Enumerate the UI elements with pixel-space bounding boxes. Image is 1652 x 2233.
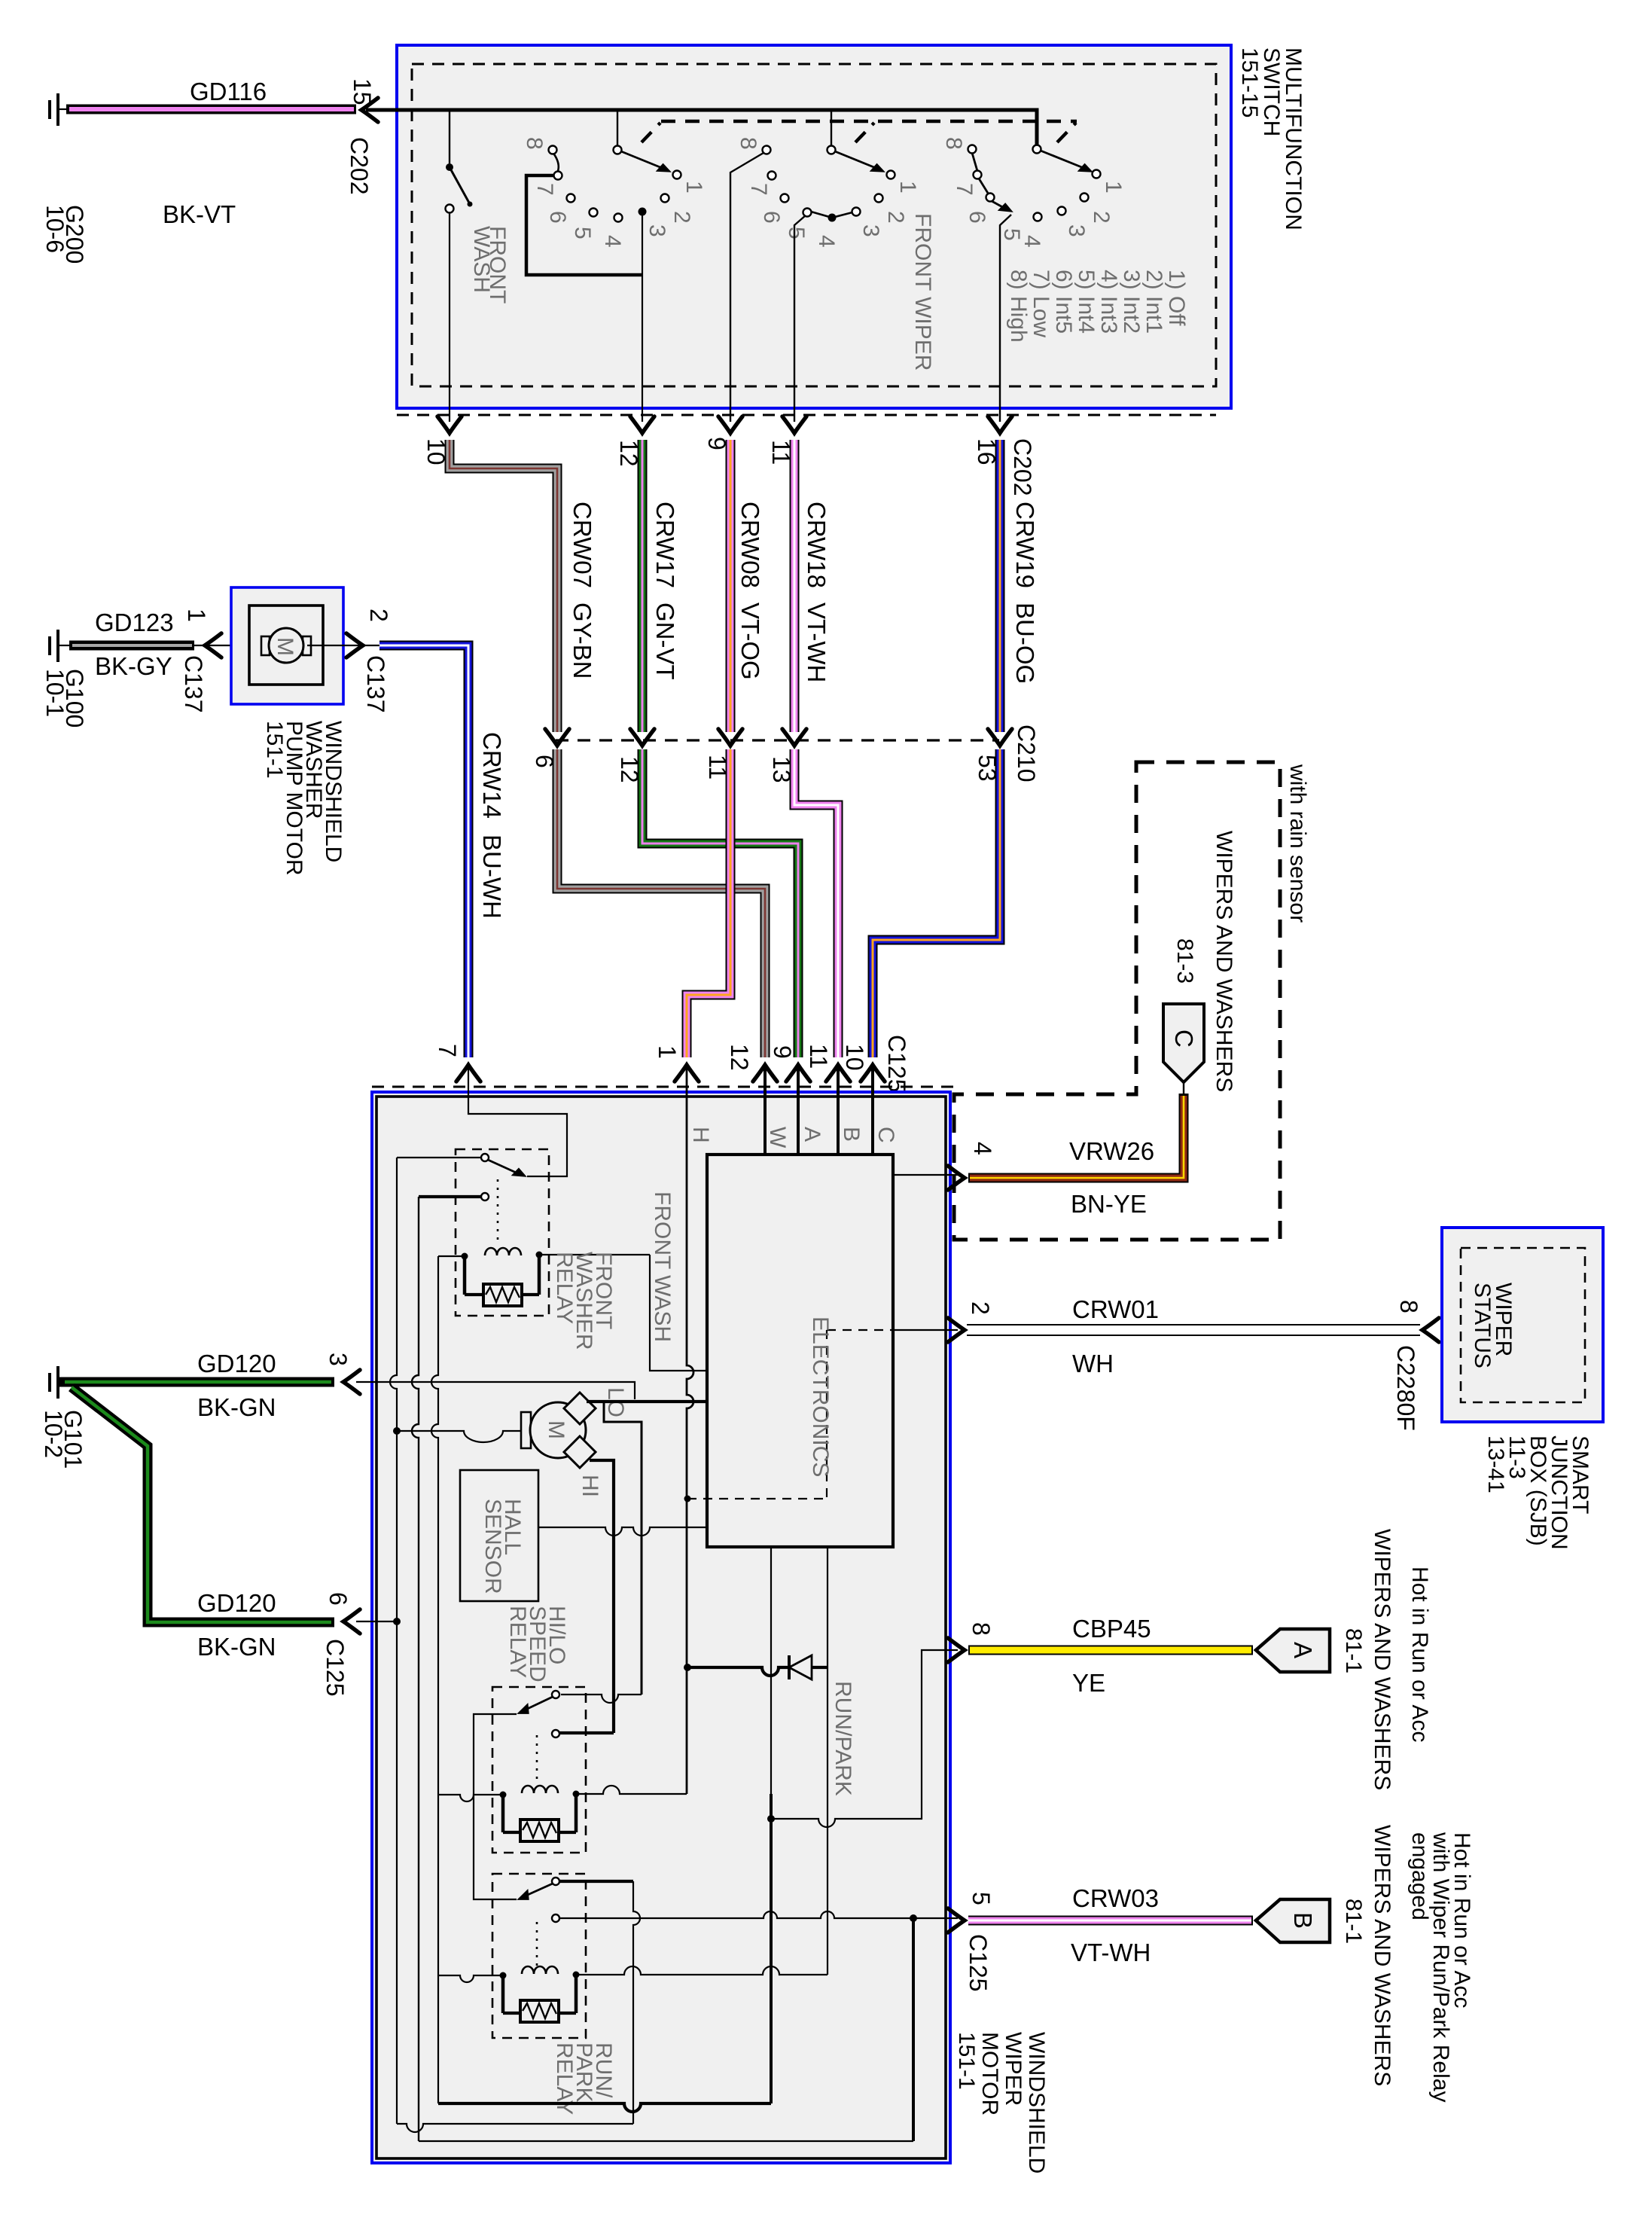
svg-text:C210: C210: [1013, 725, 1040, 782]
svg-text:STATUS: STATUS: [1470, 1283, 1495, 1368]
connector C202 dashed line: [397, 414, 1216, 416]
label FRONT WASHER RELAY: [552, 1252, 616, 1350]
svg-text:9: 9: [769, 1045, 796, 1059]
relay K1 resistor: [465, 1284, 539, 1306]
svg-text:M: M: [273, 637, 297, 656]
svg-text:GD116: GD116: [190, 78, 267, 105]
svg-text:13: 13: [768, 756, 795, 783]
svg-text:3) Int2: 3) Int2: [1119, 270, 1144, 334]
labels C202 pins: [422, 437, 1036, 496]
svg-text:7) Low: 7) Low: [1029, 270, 1053, 337]
svg-text:C125: C125: [883, 1035, 910, 1093]
svg-text:BK-GN: BK-GN: [197, 1633, 276, 1661]
wire pin6 interior: [356, 1621, 397, 1622]
wire CRW19 BU-OG upper: [995, 440, 1005, 732]
svg-text:CRW03: CRW03: [1072, 1884, 1159, 1912]
wire pin11 B: [837, 1069, 840, 1155]
electronics dashed box: [687, 1330, 893, 1499]
wire bottom line H2: [397, 2124, 633, 2132]
svg-text:W: W: [765, 1127, 790, 1149]
svg-text:2: 2: [669, 211, 694, 224]
label HI/LO SPEED RELAY: [505, 1606, 569, 1682]
labels C210 pins: [531, 725, 1040, 783]
wire LO branch to hi/lo relay pivot: [604, 1402, 642, 1695]
front washer relay dashed box: [456, 1149, 549, 1316]
svg-text:10-1: 10-1: [41, 669, 69, 717]
svg-text:CRW17: CRW17: [651, 502, 679, 588]
svg-text:C: C: [873, 1127, 898, 1143]
label Hot in Run or Acc engaged: [1407, 1832, 1474, 2102]
svg-text:6: 6: [545, 211, 570, 224]
wire HI bold: [590, 1460, 614, 1733]
wire wafer1 contact7 bracket: [526, 175, 642, 275]
svg-text:2: 2: [967, 1301, 994, 1315]
connector C125 pin6 arrow: [343, 1609, 360, 1634]
svg-text:10-2: 10-2: [40, 1410, 67, 1458]
svg-text:C2280F: C2280F: [1392, 1345, 1419, 1431]
switch wafer1 front wiper: [522, 137, 706, 248]
svg-text:RELAY: RELAY: [552, 1252, 577, 1324]
wire pin9 A: [797, 1069, 800, 1155]
relay K2 switch: [514, 1691, 559, 1782]
svg-text:MOTOR: MOTOR: [977, 2032, 1002, 2116]
wire pin5 branch down: [912, 1918, 915, 2141]
connector C210 pin arrows: [545, 729, 1012, 746]
node diode H junction: [684, 1664, 691, 1671]
wire CRW08 VT-OG upper: [726, 440, 736, 732]
svg-text:7: 7: [746, 183, 771, 196]
connector C202 pin arrows: [437, 416, 1012, 433]
run/park relay dashed box: [492, 1874, 586, 2038]
svg-text:4: 4: [969, 1142, 996, 1155]
svg-text:10-6: 10-6: [41, 205, 69, 253]
wire pin10 C: [871, 1069, 874, 1155]
wire wafer2 contact5 to pin11: [794, 215, 806, 422]
label HALL SENSOR: [480, 1499, 525, 1594]
connector C125 pin4 arrow: [948, 1166, 965, 1190]
wire CRW08 VT-OG lower: [687, 749, 730, 1057]
svg-text:3: 3: [858, 224, 883, 237]
svg-text:2) Int1: 2) Int1: [1141, 270, 1166, 334]
wire pin4 C line: [893, 1174, 958, 1176]
svg-text:5: 5: [968, 1892, 995, 1905]
svg-text:5: 5: [784, 227, 809, 239]
wire VRW26 BN-YE: [968, 1082, 1184, 1178]
svg-text:VT-WH: VT-WH: [1071, 1939, 1151, 1966]
wire GD120 BK-GN pin6 branch: [72, 1387, 334, 1622]
wire wafer3 contact5 to pin16: [1000, 215, 1011, 422]
wire module bottom vertical x1024: [770, 1547, 772, 1794]
svg-text:1) Off: 1) Off: [1164, 270, 1189, 326]
svg-text:GY-BN: GY-BN: [568, 602, 596, 679]
svg-text:CRW18: CRW18: [803, 502, 831, 588]
svg-text:GD120: GD120: [197, 1589, 276, 1617]
svg-text:C125: C125: [322, 1639, 349, 1697]
wire CRW19 BU-OG lower: [873, 749, 1000, 1057]
wire relay contact bold: [419, 1195, 481, 1198]
svg-text:CRW14: CRW14: [478, 732, 506, 819]
wire motor feed: [397, 1431, 521, 1442]
svg-text:2: 2: [1089, 211, 1114, 224]
dashed linkage bus: [642, 121, 1077, 142]
svg-text:81-3: 81-3: [1172, 938, 1197, 984]
wire C137 pin2 lead: [307, 645, 379, 646]
svg-text:4: 4: [1020, 235, 1044, 248]
wire CRW01 WH double line: [967, 1325, 1420, 1335]
svg-text:1: 1: [895, 181, 920, 194]
connector C202 pin15 arrow: [361, 98, 378, 122]
diode D1: [687, 1655, 828, 1679]
labels C125 pins top: [434, 1035, 910, 1093]
svg-text:GD120: GD120: [197, 1350, 276, 1377]
wire bottom line H3: [419, 2140, 913, 2142]
svg-text:BU-OG: BU-OG: [1011, 602, 1039, 684]
label WINDSHIELD WASHER PUMP MOTOR 151-1: [262, 721, 346, 876]
wire stub wafer2 pivot: [831, 110, 832, 146]
svg-text:C202: C202: [1009, 438, 1036, 496]
connector C125 pin8 arrow: [948, 1638, 965, 1662]
svg-text:B: B: [839, 1127, 864, 1142]
svg-text:CBP45: CBP45: [1072, 1615, 1151, 1643]
label MULTIFUNCTION SWITCH 151-15: [1237, 47, 1306, 230]
node power branch: [767, 1815, 775, 1823]
relay K3 resistor: [503, 2000, 576, 2022]
wire pin5 line: [559, 1911, 958, 1918]
wire pin2 lead: [893, 1329, 958, 1331]
wire K3 pivot bold: [559, 1880, 633, 1883]
relay K1 coil: [438, 1248, 650, 1295]
svg-text:1: 1: [183, 609, 210, 622]
svg-text:15: 15: [349, 78, 376, 105]
switch wafer3 front wiper: [941, 137, 1126, 248]
svg-text:CRW07: CRW07: [568, 502, 596, 588]
svg-text:YE: YE: [1072, 1669, 1105, 1697]
windshield washer pump motor box: [231, 587, 343, 704]
wire C137 pin1 lead: [194, 645, 265, 646]
relay K1 switch: [481, 1154, 529, 1244]
wire bottom line H1 bold: [438, 2103, 771, 2112]
wire front wash to pin10: [449, 212, 450, 422]
svg-text:RUN/PARK: RUN/PARK: [831, 1681, 855, 1796]
connector C125 pin3 arrow: [343, 1370, 360, 1394]
connector C137 pin2 arrow: [346, 633, 363, 657]
motor M wiper: [521, 1393, 596, 1468]
svg-text:8: 8: [522, 137, 547, 150]
switch wafer2 front wiper: [736, 137, 920, 248]
svg-text:H: H: [688, 1127, 713, 1143]
wire x1099 lower vertical: [827, 1667, 828, 1975]
node K2 coil left: [500, 1792, 507, 1798]
connector C137 pin1 arrow: [205, 633, 221, 657]
svg-text:12: 12: [726, 1044, 753, 1071]
svg-text:with rain sensor: with rain sensor: [1285, 764, 1310, 923]
svg-text:VT-WH: VT-WH: [803, 602, 831, 682]
connector pentagon A: [1256, 1629, 1330, 1672]
svg-text:C137: C137: [362, 655, 389, 713]
wire pin1 H line: [687, 1069, 693, 1794]
svg-text:A: A: [1289, 1642, 1317, 1658]
svg-text:C202: C202: [346, 137, 373, 195]
svg-text:7: 7: [434, 1044, 461, 1057]
svg-text:151-15: 151-15: [1237, 47, 1262, 117]
svg-text:C137: C137: [180, 655, 207, 713]
wire stub wafer1 pivot: [617, 110, 618, 146]
svg-text:2: 2: [883, 211, 908, 224]
hi/lo speed relay dashed box: [492, 1687, 586, 1853]
svg-text:engaged: engaged: [1407, 1832, 1432, 1920]
svg-text:6: 6: [325, 1592, 352, 1606]
svg-text:3: 3: [645, 224, 669, 237]
wire CRW17 GN-VT lower: [642, 749, 798, 1057]
svg-text:5: 5: [570, 227, 595, 239]
wire rail1 vertical: [390, 1158, 397, 2124]
svg-text:WIPERS AND WASHERS: WIPERS AND WASHERS: [1212, 831, 1236, 1092]
wire pin7 to washer relay arm: [468, 1069, 567, 1176]
connector pentagon B: [1256, 1899, 1330, 1942]
svg-text:7: 7: [532, 183, 557, 196]
wire K2 coil feed: [576, 1786, 687, 1794]
svg-text:4) Int3: 4) Int3: [1096, 270, 1121, 334]
wire wafer2 contact8 to pin9: [730, 153, 764, 422]
svg-text:WINDSHIELD: WINDSHIELD: [1024, 2032, 1049, 2174]
svg-text:81-1: 81-1: [1341, 1899, 1366, 1944]
svg-text:3: 3: [1064, 224, 1089, 237]
svg-text:151-1: 151-1: [954, 2032, 979, 2090]
svg-text:RELAY: RELAY: [505, 1606, 530, 1678]
svg-text:8: 8: [968, 1622, 995, 1636]
windshield wiper motor box: [372, 1092, 950, 2163]
svg-text:VT-OG: VT-OG: [736, 602, 764, 680]
node pin5 junction: [910, 1914, 917, 1922]
svg-text:8: 8: [1395, 1300, 1422, 1313]
labels module pins H W A B C: [688, 1127, 898, 1149]
wire CRW17 GN-VT upper: [638, 440, 648, 732]
wire wafer1 contact3 to pin12: [642, 212, 643, 422]
svg-text:M: M: [544, 1420, 568, 1439]
multifunction switch box U1: [397, 45, 1231, 408]
wire CRW07 GY-BN lower: [557, 749, 765, 1057]
node K3 coil right: [573, 1972, 580, 1978]
svg-text:6) Int5: 6) Int5: [1051, 270, 1076, 334]
svg-text:ELECTRONICS: ELECTRONICS: [808, 1316, 833, 1477]
svg-text:WH: WH: [1072, 1350, 1114, 1377]
svg-text:C125: C125: [965, 1934, 992, 1992]
svg-text:WIPER: WIPER: [1001, 2032, 1026, 2106]
wire rail2 vertical: [412, 1197, 419, 2141]
node electronics dashed corner: [684, 1496, 691, 1502]
wire rail1 to relay pivot: [397, 1157, 481, 1158]
svg-text:13-41: 13-41: [1483, 1435, 1508, 1493]
wire pin3 interior: [356, 1382, 635, 1399]
svg-text:8) High: 8) High: [1006, 270, 1031, 343]
hall sensor box: [460, 1470, 538, 1601]
svg-text:BK-VT: BK-VT: [163, 200, 236, 228]
wire pin12 W: [764, 1069, 767, 1155]
ground G100: [41, 630, 88, 728]
connector pentagon C: [1163, 1004, 1204, 1082]
wire CRW14 BU-WH: [379, 645, 468, 1057]
svg-text:CRW01: CRW01: [1072, 1295, 1159, 1323]
svg-text:6: 6: [531, 755, 558, 768]
svg-text:4: 4: [814, 235, 839, 248]
svg-text:2: 2: [365, 609, 392, 622]
connector C125 pin2 arrow: [948, 1318, 965, 1342]
wire K3 pivot vertical: [633, 1881, 640, 2124]
node rail1 motor feed: [393, 1427, 401, 1435]
ground G101: [40, 1366, 87, 1469]
svg-text:11: 11: [704, 755, 731, 779]
relay K2 resistor: [503, 1820, 576, 1841]
node rail1 pin6: [393, 1618, 401, 1625]
svg-text:B: B: [1289, 1912, 1317, 1929]
svg-text:4: 4: [600, 235, 625, 248]
svg-text:1: 1: [681, 181, 706, 194]
svg-text:HI: HI: [578, 1475, 602, 1497]
wire pin15 bus: [366, 110, 1037, 145]
relay K3 coil: [438, 1966, 828, 2013]
svg-text:5) Int4: 5) Int4: [1074, 270, 1099, 334]
node K2 coil right: [573, 1791, 580, 1798]
wire hall to module: [538, 1527, 707, 1536]
wire K2 pivot link: [561, 1695, 642, 1703]
wire CRW18 VT-WH upper: [790, 440, 800, 732]
svg-text:BK-GN: BK-GN: [197, 1393, 276, 1421]
node coil left: [462, 1253, 468, 1260]
connector C210 dashed line: [556, 739, 999, 741]
svg-text:SENSOR: SENSOR: [480, 1499, 505, 1594]
svg-text:FRONT WIPER: FRONT WIPER: [910, 213, 935, 371]
wiper status box: [1442, 1228, 1603, 1422]
svg-text:3: 3: [325, 1353, 352, 1366]
svg-text:BK-GY: BK-GY: [95, 652, 172, 680]
wire CRW18 VT-WH lower: [794, 749, 838, 1057]
svg-text:6: 6: [759, 211, 784, 224]
svg-text:151-1: 151-1: [262, 721, 287, 779]
svg-text:C: C: [1170, 1030, 1198, 1048]
svg-text:FRONT WASH: FRONT WASH: [650, 1191, 675, 1342]
svg-text:8: 8: [941, 137, 966, 150]
svg-text:CRW08: CRW08: [736, 502, 764, 588]
wire module bottom diode line: [827, 1547, 828, 1667]
svg-text:11: 11: [805, 1044, 832, 1069]
svg-text:81-1: 81-1: [1341, 1628, 1366, 1673]
svg-text:1: 1: [654, 1045, 681, 1059]
connector C2280F pin8 arrow: [1422, 1318, 1439, 1342]
svg-text:BN-YE: BN-YE: [1071, 1190, 1147, 1218]
label switch position legend: [1006, 270, 1189, 343]
svg-text:6: 6: [965, 211, 989, 224]
ground G200: [41, 93, 88, 264]
wire rail3 vertical: [431, 1256, 438, 2103]
wire GD120 BK-GN pin3: [59, 1377, 334, 1387]
svg-text:53: 53: [974, 755, 1001, 782]
svg-text:GD123: GD123: [95, 609, 174, 636]
svg-text:Hot in Run or Acc: Hot in Run or Acc: [1407, 1566, 1432, 1742]
wire CBP45 YE: [968, 1646, 1253, 1655]
svg-text:BU-WH: BU-WH: [478, 834, 506, 919]
connector C125 pin arrows top: [456, 1065, 885, 1081]
wire K2 arm link: [474, 1714, 517, 1899]
svg-text:WIPERS AND WASHERS: WIPERS AND WASHERS: [1370, 1529, 1394, 1790]
wire LO bold: [587, 1400, 707, 1403]
wire GD123 BK-GY: [69, 641, 194, 651]
svg-text:10: 10: [841, 1044, 868, 1071]
wipers and washers dashed box rain sensor: [954, 762, 1280, 1240]
label RUN/ PARK RELAY: [552, 2042, 616, 2115]
svg-text:VRW26: VRW26: [1069, 1137, 1154, 1165]
wire CRW03 VT-WH: [968, 1916, 1253, 1926]
wire stub front wash: [449, 110, 450, 163]
wire CBP45 power branch: [771, 1650, 958, 1827]
electronics module box: [707, 1155, 893, 1547]
relay K3 switch: [514, 1878, 559, 1969]
label WINDSHIELD WIPER MOTOR 151-1: [954, 2032, 1049, 2174]
wire CRW07 GY-BN upper: [450, 440, 557, 732]
svg-text:A: A: [800, 1127, 824, 1142]
svg-text:1: 1: [1101, 181, 1126, 194]
node K3 coil left: [500, 1972, 507, 1979]
wire front wash vertical: [650, 1255, 707, 1371]
relay K2 coil: [438, 1786, 576, 1832]
svg-text:WASH: WASH: [469, 226, 494, 293]
svg-text:8: 8: [736, 137, 760, 150]
switch SW1 FRONT WASH: [446, 163, 511, 304]
node coil right: [536, 1252, 543, 1258]
svg-text:GN-VT: GN-VT: [651, 602, 679, 680]
svg-text:CRW19: CRW19: [1011, 502, 1039, 588]
label SMART JUNCTION BOX: [1483, 1435, 1593, 1550]
motor M washer pump: [261, 628, 311, 663]
wire GD116 BK-VT: [66, 105, 356, 114]
connector C125 dashed line: [372, 1086, 954, 1088]
wire K2 contact bold: [559, 1731, 614, 1734]
svg-text:7: 7: [952, 183, 977, 196]
connector C125 pin5 arrow: [948, 1908, 965, 1933]
svg-text:12: 12: [616, 756, 643, 783]
svg-text:WIPERS AND WASHERS: WIPERS AND WASHERS: [1370, 1825, 1394, 2086]
